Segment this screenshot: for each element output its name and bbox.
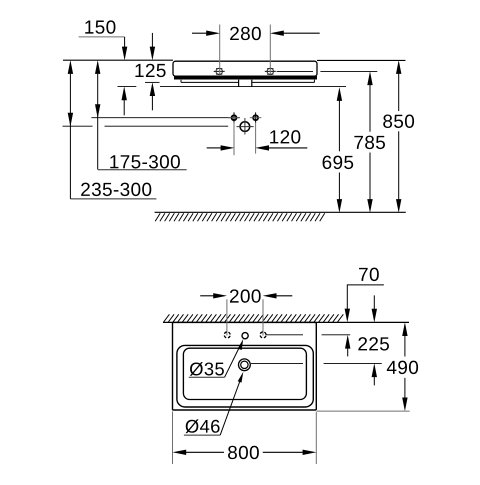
label 850: [383, 115, 414, 128]
label 695: [323, 156, 354, 169]
200 arrowhead left: [213, 293, 227, 298]
125 lower arrowhead up: [150, 82, 155, 96]
280 arrowhead left: [206, 31, 220, 36]
side tap hole left (dashed): [224, 332, 230, 338]
tap holes level line inner: [266, 334, 304, 336]
695 level line (under basin): [160, 86, 346, 88]
150 leader underline: [79, 36, 125, 38]
floor line: [155, 211, 406, 213]
drain stub left side: [238, 80, 240, 87]
drain level line (235-300 level): [105, 125, 229, 127]
280 arrowhead right: [270, 31, 284, 36]
label 490: [387, 361, 418, 374]
120 arrowhead left: [221, 145, 235, 150]
fixing hole crosshair left: [216, 68, 222, 74]
drain level line inner: [251, 362, 303, 364]
basin outline plan view: [173, 322, 317, 410]
490 dim line upper: [404, 335, 406, 357]
diameter35 leader arrowhead: [238, 339, 244, 350]
225 arrowhead down at wall: [372, 309, 377, 323]
785 level line inside basin: [277, 70, 313, 72]
225 arrowhead up at drain line: [372, 363, 377, 377]
fixing hole left bottom bar: [216, 73, 222, 75]
490 arrowhead up at wall: [402, 322, 407, 336]
drain circle v-tick: [244, 118, 246, 135]
label 200: [230, 289, 261, 302]
label 280: [230, 27, 261, 40]
120 arrowhead right: [255, 145, 269, 150]
490 extension line at front edge: [317, 410, 410, 412]
plan wall line: [163, 321, 409, 323]
235-300 dim line: [69, 73, 71, 199]
diameter35 underline: [189, 376, 225, 378]
120 dim arrow line left: [207, 147, 223, 149]
785 dim line upper: [369, 84, 371, 132]
800 arrowhead right: [303, 450, 317, 455]
120 extension line right: [255, 122, 257, 153]
235-300 arrowhead up: [68, 60, 73, 74]
125 upper arrow tail: [151, 33, 153, 48]
280 extension line left: [219, 25, 221, 75]
label diameter 35: [190, 362, 224, 376]
695 dim line upper: [338, 100, 340, 152]
basin underside thick bar: [174, 76, 317, 80]
235-300 leader underline: [70, 198, 156, 200]
rim level line left (850 level): [63, 59, 173, 61]
225 upper arrow tail: [373, 295, 375, 310]
125 upper arrowhead down: [150, 47, 155, 61]
supply point right v-tick: [255, 112, 257, 123]
150 lower arrow tail: [123, 99, 125, 116]
supply point left v-tick: [233, 112, 235, 123]
label 235-300: [81, 183, 151, 196]
drain inner circle plan: [241, 361, 248, 368]
washbasin body front view: [173, 61, 317, 76]
225 lower arrow tail: [373, 376, 375, 386]
200 extension line left: [226, 299, 228, 335]
200 extension line right: [262, 299, 264, 335]
rail strip left edge: [180, 80, 182, 83]
diameter46 leader line: [220, 375, 242, 435]
800 arrowhead left: [172, 450, 186, 455]
800 extension line right: [315, 412, 317, 465]
rim level line right (850 level): [317, 59, 406, 61]
70 leader line: [347, 285, 384, 310]
70 lower arrow tail: [347, 347, 349, 356]
fixing hole right bottom bar: [267, 73, 273, 75]
850 dim line upper: [398, 73, 400, 112]
200 arrowhead right: [263, 293, 277, 298]
bowl outer rim: [177, 345, 313, 407]
drain level line outer: [324, 362, 382, 364]
175-300 dim line: [97, 73, 99, 170]
bowl inner edge: [183, 348, 306, 399]
120 extension line left: [233, 122, 235, 155]
70 arrowhead down at wall: [345, 309, 350, 323]
fixing hole right top bar: [267, 68, 273, 70]
850 arrowhead up: [396, 60, 401, 74]
diameter35 leader line: [225, 344, 242, 378]
235-300 arrowhead down: [68, 113, 73, 127]
rail strip right edge: [313, 80, 315, 83]
280 extension line right: [269, 25, 271, 75]
label 225: [358, 337, 389, 350]
200 dim arrow line left: [200, 295, 215, 297]
faucet hole: [242, 333, 248, 339]
785 dim line lower: [369, 153, 371, 200]
235-300 level tick: [63, 125, 93, 127]
diameter46 underline: [184, 434, 220, 436]
label 150: [85, 20, 115, 33]
fixing hole left horizontal tick: [214, 70, 225, 72]
supply point left h-tick: [228, 117, 240, 119]
drain stub right side: [251, 80, 253, 87]
800 dim line right: [263, 451, 304, 453]
fixing hole crosshair right: [267, 68, 273, 74]
200 dim arrow line right: [275, 295, 292, 297]
side tap hole right (dashed): [260, 332, 266, 338]
diameter46 leader arrowhead: [238, 372, 244, 383]
785 arrowhead up: [367, 71, 372, 85]
label 785: [354, 136, 385, 149]
175-300 arrowhead up: [95, 60, 100, 74]
tap holes level line outer: [322, 334, 351, 336]
785 arrowhead down: [367, 199, 372, 213]
150 upper arrowhead down: [122, 47, 127, 61]
drain connection circle: [240, 122, 250, 132]
supply point right h-tick: [250, 117, 262, 119]
fixing hole right horizontal tick: [265, 70, 276, 72]
800 dim line left: [184, 451, 224, 453]
490 dim line lower: [404, 378, 406, 399]
120 dim arrow line right: [268, 147, 308, 149]
125 level tick (725 level): [145, 81, 160, 83]
280 dim arrow line left: [192, 32, 208, 34]
drain outer circle plan: [239, 359, 251, 371]
supply level line (175-300 level): [91, 117, 239, 119]
rail strip bottom line left part: [181, 81, 238, 83]
850 arrowhead down: [396, 199, 401, 213]
label 800: [228, 446, 259, 459]
125 lower arrow tail: [151, 95, 153, 111]
70 arrowhead up at holes line: [345, 335, 350, 349]
150 upper arrow tail: [124, 37, 126, 48]
695 arrowhead up: [337, 87, 342, 101]
175-300 arrowhead down: [95, 104, 100, 118]
695 arrowhead down: [337, 199, 342, 213]
label 120: [270, 130, 300, 143]
label 125: [135, 64, 165, 77]
695 dim line lower: [338, 173, 340, 200]
supply connection point left: [232, 115, 237, 120]
490 arrowhead down at front edge: [402, 398, 407, 412]
floor hatching: [155, 213, 325, 221]
175-300 leader underline: [98, 169, 187, 171]
fixing hole left top bar: [216, 68, 222, 70]
800 extension line left: [172, 412, 174, 465]
label 175-300: [110, 155, 180, 168]
150 lower arrowhead up: [122, 86, 127, 100]
785 level line right of basin: [320, 70, 377, 72]
plan wall hatching: [164, 314, 344, 322]
drain stub: [239, 80, 251, 87]
rail strip bottom line right part: [252, 81, 314, 83]
850 dim line lower: [398, 131, 400, 199]
150 level tick (700 level): [118, 86, 137, 88]
drain circle h-tick: [237, 126, 254, 128]
supply connection point right: [253, 115, 258, 120]
280 dim arrow line right: [282, 32, 320, 34]
label 70: [359, 268, 379, 281]
label diameter 46: [186, 419, 220, 433]
